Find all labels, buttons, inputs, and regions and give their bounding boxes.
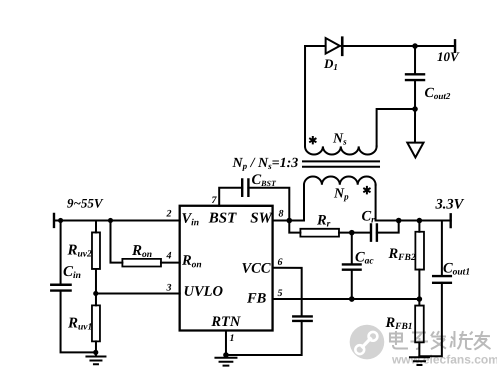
svg-text:FB: FB — [246, 291, 267, 307]
wire Ron to pin4 — [161, 262, 180, 264]
wire Cout1 branch — [441, 221, 443, 277]
wire Cin to ground rail — [61, 291, 96, 353]
svg-text:CBST: CBST — [251, 172, 276, 188]
wire diode to 10V — [342, 45, 456, 47]
wire Cr to rail — [377, 221, 399, 233]
svg-text:VCC: VCC — [241, 261, 270, 277]
wire SW down to Rr — [289, 221, 300, 233]
wire SW pin8 — [273, 220, 290, 222]
node ground left — [93, 350, 98, 355]
capacitor Cin — [51, 285, 70, 291]
wire UVLO — [96, 292, 180, 294]
svg-text:1: 1 — [229, 333, 234, 344]
wire Ns left to diode — [304, 46, 306, 146]
svg-text:Rr: Rr — [316, 213, 331, 230]
ground triangle secondary — [407, 143, 423, 158]
resistor Ron — [122, 259, 161, 267]
wire pin7 BST stub — [219, 188, 242, 206]
svg-text:3: 3 — [165, 282, 171, 293]
svg-text:RFB1: RFB1 — [384, 315, 412, 332]
wire Cac top lead — [351, 233, 353, 265]
node Cac-FB — [349, 296, 355, 302]
terminal bar 10V — [454, 40, 456, 51]
wire output rail 3.3V — [376, 220, 451, 222]
svg-text:D1: D1 — [323, 56, 338, 72]
svg-text:Ron: Ron — [181, 253, 202, 271]
svg-text:2: 2 — [165, 208, 171, 219]
wire Np left terminal — [303, 185, 305, 221]
wire VCC — [273, 268, 302, 317]
terminal bar input — [53, 214, 55, 227]
svg-text:Cac: Cac — [355, 250, 374, 267]
wire Cout1 to ground — [419, 283, 442, 356]
wire RFB2 top lead — [418, 221, 420, 232]
svg-text:www.elecfans.com: www.elecfans.com — [391, 353, 497, 367]
svg-text:Ruv2: Ruv2 — [66, 242, 92, 259]
node Rr-Cr junction — [349, 230, 355, 236]
svg-text:6: 6 — [277, 257, 282, 268]
wire Cout2 bottom lead — [414, 80, 416, 142]
node RFB2 rail — [417, 218, 423, 224]
ground RTN — [215, 355, 236, 366]
svg-text:Ns: Ns — [332, 132, 347, 147]
svg-text:Ruv1: Ruv1 — [67, 315, 92, 332]
svg-text:5: 5 — [277, 288, 282, 299]
diode D1 — [326, 38, 340, 54]
watermark logo disk — [350, 325, 385, 360]
svg-text:Np: Np — [333, 187, 349, 202]
svg-text:UVLO: UVLO — [183, 284, 223, 300]
IC U1 regulator body — [180, 206, 273, 331]
svg-text:BST: BST — [208, 210, 237, 226]
transformer winding Ns — [305, 146, 377, 154]
svg-text:7: 7 — [211, 195, 217, 206]
capacitor CBST — [242, 179, 248, 195]
svg-text:Cout2: Cout2 — [425, 86, 451, 101]
svg-text:Vin: Vin — [181, 211, 199, 229]
capacitor CVCC — [293, 316, 311, 321]
transformer winding Np — [304, 177, 376, 185]
wire RFB1 top lead — [418, 299, 420, 306]
wire RFB2 bottom lead — [418, 270, 420, 300]
resistor Rr — [300, 229, 339, 237]
label polarity dot Np — [363, 186, 370, 194]
label polarity dot Ns — [309, 136, 316, 144]
node Cout2 bottom — [412, 106, 418, 112]
wire Cac bottom lead — [351, 270, 353, 299]
node Ron branch — [108, 218, 113, 223]
wire diode rail — [305, 45, 324, 47]
node input-Cin — [58, 218, 63, 223]
svg-text:RTN: RTN — [210, 314, 241, 330]
capacitor Cout2 — [406, 74, 424, 80]
svg-text:Ron: Ron — [131, 243, 152, 260]
resistor RFB2 — [415, 232, 424, 270]
svg-text:4: 4 — [165, 250, 171, 261]
svg-text:Cr: Cr — [361, 209, 375, 226]
resistor Ruv2 — [92, 232, 100, 269]
node Cr rail — [396, 218, 402, 224]
svg-text:9~55V: 9~55V — [67, 195, 104, 210]
node Cout2 top — [412, 43, 418, 49]
wire Ruv1 top lead — [95, 293, 97, 305]
transformer core — [303, 161, 379, 166]
wire Cout2 top lead — [414, 46, 416, 74]
svg-text:3.3V: 3.3V — [434, 197, 464, 213]
wire SW to Np left — [289, 220, 304, 222]
wire CBST to SW node — [248, 188, 289, 221]
wire Ns right up — [377, 109, 415, 146]
wire RTN stub — [225, 330, 227, 355]
svg-text:8: 8 — [278, 209, 283, 220]
wire CVCC to ground — [226, 321, 302, 355]
resistor Ruv1 — [92, 305, 100, 341]
svg-text:Cout1: Cout1 — [443, 261, 470, 278]
watermark text 电子发烧友 (vector strokes) — [390, 331, 491, 350]
terminal bar 3.3V — [449, 214, 451, 227]
svg-text:Cin: Cin — [63, 264, 81, 281]
wire Ruv2 top lead — [95, 220, 97, 232]
resistor RFB1 — [415, 306, 424, 343]
wire input rail 9~55V — [54, 219, 180, 221]
node RTN ground — [223, 352, 229, 358]
svg-text:SW: SW — [250, 211, 273, 227]
ground left — [86, 356, 105, 364]
wire Cin branch — [60, 220, 62, 284]
capacitor Cac — [343, 264, 361, 269]
node SW — [286, 218, 292, 224]
wire Ruv1 bottom lead — [95, 341, 97, 355]
wire Ron branch — [110, 220, 122, 262]
node UVLO divider — [93, 291, 98, 296]
wire Rr to Cr — [339, 232, 371, 234]
wire Ruv2 bottom lead — [95, 269, 97, 294]
capacitor Cr — [371, 224, 377, 240]
svg-text:Np / Ns=1:3: Np / Ns=1:3 — [232, 156, 299, 171]
svg-text:10V: 10V — [437, 49, 460, 64]
node FB divider — [417, 296, 423, 302]
wire FB — [273, 298, 420, 300]
wire RFB1 bottom lead — [418, 342, 420, 356]
svg-text:RFB2: RFB2 — [387, 246, 415, 263]
capacitor Cout1 — [433, 276, 451, 283]
ground RFB1 — [410, 357, 429, 365]
wire Np right terminal — [375, 185, 377, 221]
